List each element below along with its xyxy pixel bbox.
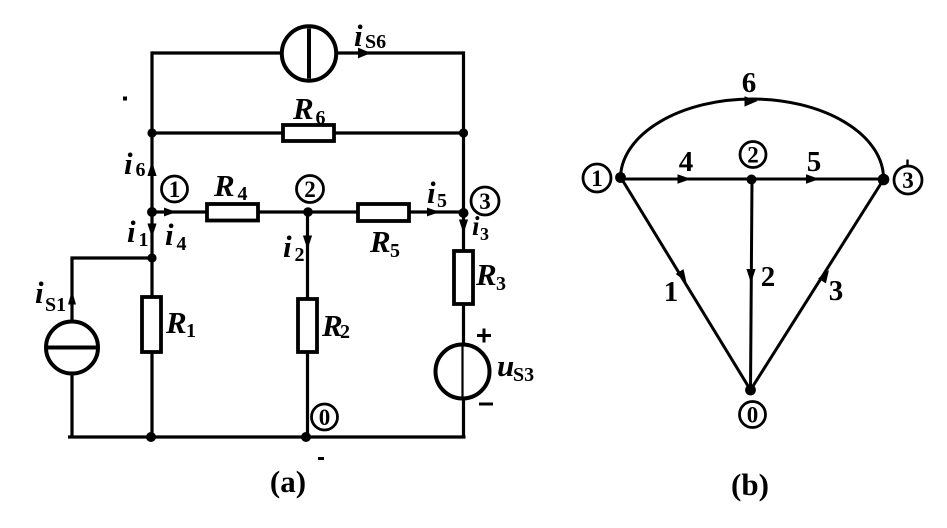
junction dot iS1 connector: [147, 253, 156, 262]
graph: horizontal line branches 4 and 5: [621, 178, 884, 181]
arrow i3 current direction: [459, 220, 468, 234]
svg-text:u: u: [497, 348, 514, 383]
svg-text:3: 3: [902, 168, 914, 193]
svg-text:2: 2: [295, 244, 305, 266]
junction dot bottom left: [146, 432, 156, 442]
graph arrow branch 1: [676, 269, 687, 282]
node 2 circle (a): [297, 176, 324, 203]
svg-text:5: 5: [437, 190, 447, 212]
svg-text:2: 2: [761, 261, 776, 293]
label i1: [127, 214, 149, 251]
label uS3: [497, 348, 534, 386]
svg-text:R: R: [369, 224, 391, 259]
wire top horizontal right segment: [336, 51, 464, 54]
graph arrow branch 2: [746, 269, 755, 283]
svg-text:2: 2: [340, 321, 350, 343]
graph arrow branch 4: [678, 174, 692, 184]
graph junction dot node 3: [878, 174, 890, 186]
svg-text:2: 2: [747, 142, 759, 167]
svg-text:2: 2: [304, 177, 316, 202]
graph node 3 circle: [894, 166, 922, 194]
plus sign US3: [477, 329, 491, 343]
svg-text:R: R: [475, 257, 497, 292]
svg-text:3: 3: [479, 189, 491, 214]
svg-text:R: R: [213, 168, 235, 203]
graph: line branch 3: [751, 180, 884, 391]
svg-text:(b): (b): [731, 467, 769, 502]
graph arrow branch 5: [806, 174, 820, 184]
label i3: [472, 211, 489, 244]
stray scan mark near caption a: [318, 457, 324, 460]
graph arrow branch 3: [818, 270, 829, 283]
svg-text:R: R: [292, 91, 314, 126]
svg-text:i: i: [127, 214, 136, 249]
label R6: [292, 91, 326, 129]
svg-text:5: 5: [390, 240, 400, 262]
label iS1: [35, 275, 66, 316]
svg-text:i: i: [354, 18, 363, 53]
svg-text:4: 4: [679, 146, 694, 178]
svg-text:i: i: [472, 211, 480, 241]
arrow i4 current direction: [164, 208, 177, 217]
graph node 1 circle: [583, 164, 611, 192]
svg-text:(a): (a): [270, 464, 306, 499]
resistor R1: [142, 297, 161, 352]
stray scan tick above graph node 3: [906, 160, 908, 167]
graph node 0 circle: [740, 402, 766, 428]
label i2: [283, 229, 305, 266]
svg-text:R: R: [165, 305, 187, 340]
junction dot node 2 (a): [303, 207, 313, 217]
svg-text:i: i: [283, 229, 292, 264]
voltage source US3: [436, 345, 490, 399]
minus sign US3: [479, 403, 493, 406]
svg-text:i: i: [124, 146, 133, 181]
resistor R3: [454, 251, 473, 304]
wire top horizontal left segment: [152, 51, 282, 54]
resistor R6: [283, 125, 334, 141]
label R2: [321, 308, 350, 343]
arrow i6 current direction: [147, 162, 156, 177]
label R1: [165, 305, 196, 342]
wire R6 row horizontal: [152, 131, 464, 134]
label i6: [124, 146, 146, 181]
node 1 circle (a): [162, 176, 188, 202]
label R5: [369, 224, 400, 262]
arrow iS1 current direction: [68, 291, 76, 305]
resistor R2: [298, 299, 317, 352]
wire middle row horizontal: [152, 210, 464, 213]
graph: line branch 2: [751, 180, 753, 390]
svg-text:S3: S3: [513, 364, 534, 386]
wire bottom horizontal: [68, 435, 466, 438]
svg-text:0: 0: [747, 402, 759, 427]
svg-text:3: 3: [496, 273, 506, 295]
label i4: [165, 217, 187, 255]
svg-text:3: 3: [829, 275, 844, 307]
arrow i5 current direction: [427, 208, 440, 217]
svg-text:i: i: [35, 275, 44, 310]
graph junction dot node 0: [745, 385, 756, 396]
graph node 2 circle: [740, 142, 766, 168]
label i5: [427, 175, 447, 212]
wire R2 branch vertical: [306, 212, 309, 437]
junction dot right R6 row: [459, 128, 468, 137]
svg-text:6: 6: [136, 159, 146, 181]
junction dot node 3 (a): [459, 208, 469, 218]
node 3 circle (a): [471, 187, 499, 215]
svg-text:3: 3: [480, 224, 489, 244]
junction dot left R6 row: [147, 128, 156, 137]
resistor R5: [358, 204, 409, 221]
current source IS6: [282, 26, 336, 80]
svg-text:0: 0: [319, 405, 331, 430]
wire right vertical main: [462, 51, 465, 437]
graph: arc branch 6: [621, 99, 884, 179]
svg-text:6: 6: [316, 107, 326, 129]
graph junction dot node 1: [615, 172, 626, 183]
svg-text:4: 4: [238, 183, 248, 205]
svg-text:1: 1: [591, 166, 603, 191]
wire iS1 top connector: [72, 256, 152, 258]
arrow i1 current direction: [147, 224, 156, 238]
junction dot node 1 (a): [147, 207, 157, 217]
label R4: [213, 168, 248, 205]
wire iS1 vertical upper: [70, 258, 73, 322]
graph arrow branch 6: [745, 96, 758, 106]
wire iS1 vertical lower: [70, 373, 73, 437]
current source IS1: [46, 322, 98, 374]
svg-text:1: 1: [169, 177, 181, 202]
svg-text:S1: S1: [45, 294, 66, 316]
svg-text:5: 5: [807, 146, 822, 178]
svg-text:i: i: [427, 175, 436, 210]
arrow i2 current direction: [303, 236, 312, 250]
graph junction dot node 2: [747, 175, 757, 185]
label iS6: [354, 18, 386, 53]
wire left vertical main: [150, 51, 153, 437]
svg-text:4: 4: [177, 233, 187, 255]
svg-text:S6: S6: [365, 31, 386, 53]
svg-text:1: 1: [186, 320, 196, 342]
node 0 circle (a): [312, 404, 338, 430]
svg-text:i: i: [165, 217, 174, 252]
svg-text:6: 6: [742, 67, 757, 99]
stray scan mark top left: [123, 97, 127, 101]
resistor R4: [207, 204, 258, 221]
arrow iS6 current direction: [358, 48, 371, 59]
graph: line branch 1: [621, 177, 751, 390]
label R3: [475, 257, 506, 295]
svg-text:1: 1: [139, 229, 149, 251]
svg-text:1: 1: [664, 276, 679, 308]
junction dot bottom node 0: [301, 432, 311, 442]
